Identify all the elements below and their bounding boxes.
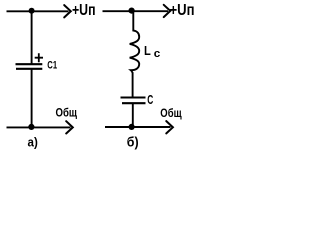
svg-text:б): б) [127, 133, 139, 149]
wire: top rail of circuit a [7, 10, 69, 12]
capacitor C1 bottom plate [16, 68, 42, 70]
svg-text:а): а) [28, 134, 38, 149]
node: junction dot top of circuit a [29, 8, 35, 14]
arrow head +Un circuit b [164, 5, 171, 17]
capacitor C top plate [121, 96, 146, 98]
arrow head Obshch circuit b [166, 121, 173, 133]
capacitor C1 top plate [16, 63, 43, 65]
wire: bottom rail of circuit b [105, 126, 171, 128]
svg-text:+Uп: +Uп [72, 2, 96, 19]
wire: bottom rail of circuit a [7, 126, 71, 128]
wire: vertical from capacitor C to bottom rail [132, 104, 134, 127]
wire: vertical from inductor to capacitor C [132, 72, 134, 96]
wire: top rail of circuit b [103, 10, 169, 12]
node: junction dot top of circuit b [129, 8, 135, 14]
wire: vertical from C1 to bottom rail [31, 70, 33, 128]
svg-text:Общ: Общ [160, 106, 182, 120]
inductor Lc coil [130, 31, 140, 73]
svg-text:L: L [144, 43, 151, 58]
svg-text:+Uп: +Uп [170, 2, 195, 19]
wire: vertical from top junction to inductor [132, 11, 134, 31]
svg-text:C: C [147, 93, 153, 107]
wire: vertical from top junction to C1 [31, 11, 33, 63]
svg-text:C1: C1 [47, 60, 57, 72]
arrow head Obshch circuit a [66, 121, 73, 133]
capacitor C bottom plate [122, 102, 146, 104]
node: junction dot bottom of circuit a [28, 124, 34, 130]
svg-text:с: с [154, 48, 161, 60]
polarity plus sign of C1 [35, 53, 43, 62]
node: junction dot bottom of circuit b [129, 124, 135, 130]
arrow head +Un circuit a [64, 5, 71, 17]
svg-text:Общ: Общ [56, 106, 78, 120]
